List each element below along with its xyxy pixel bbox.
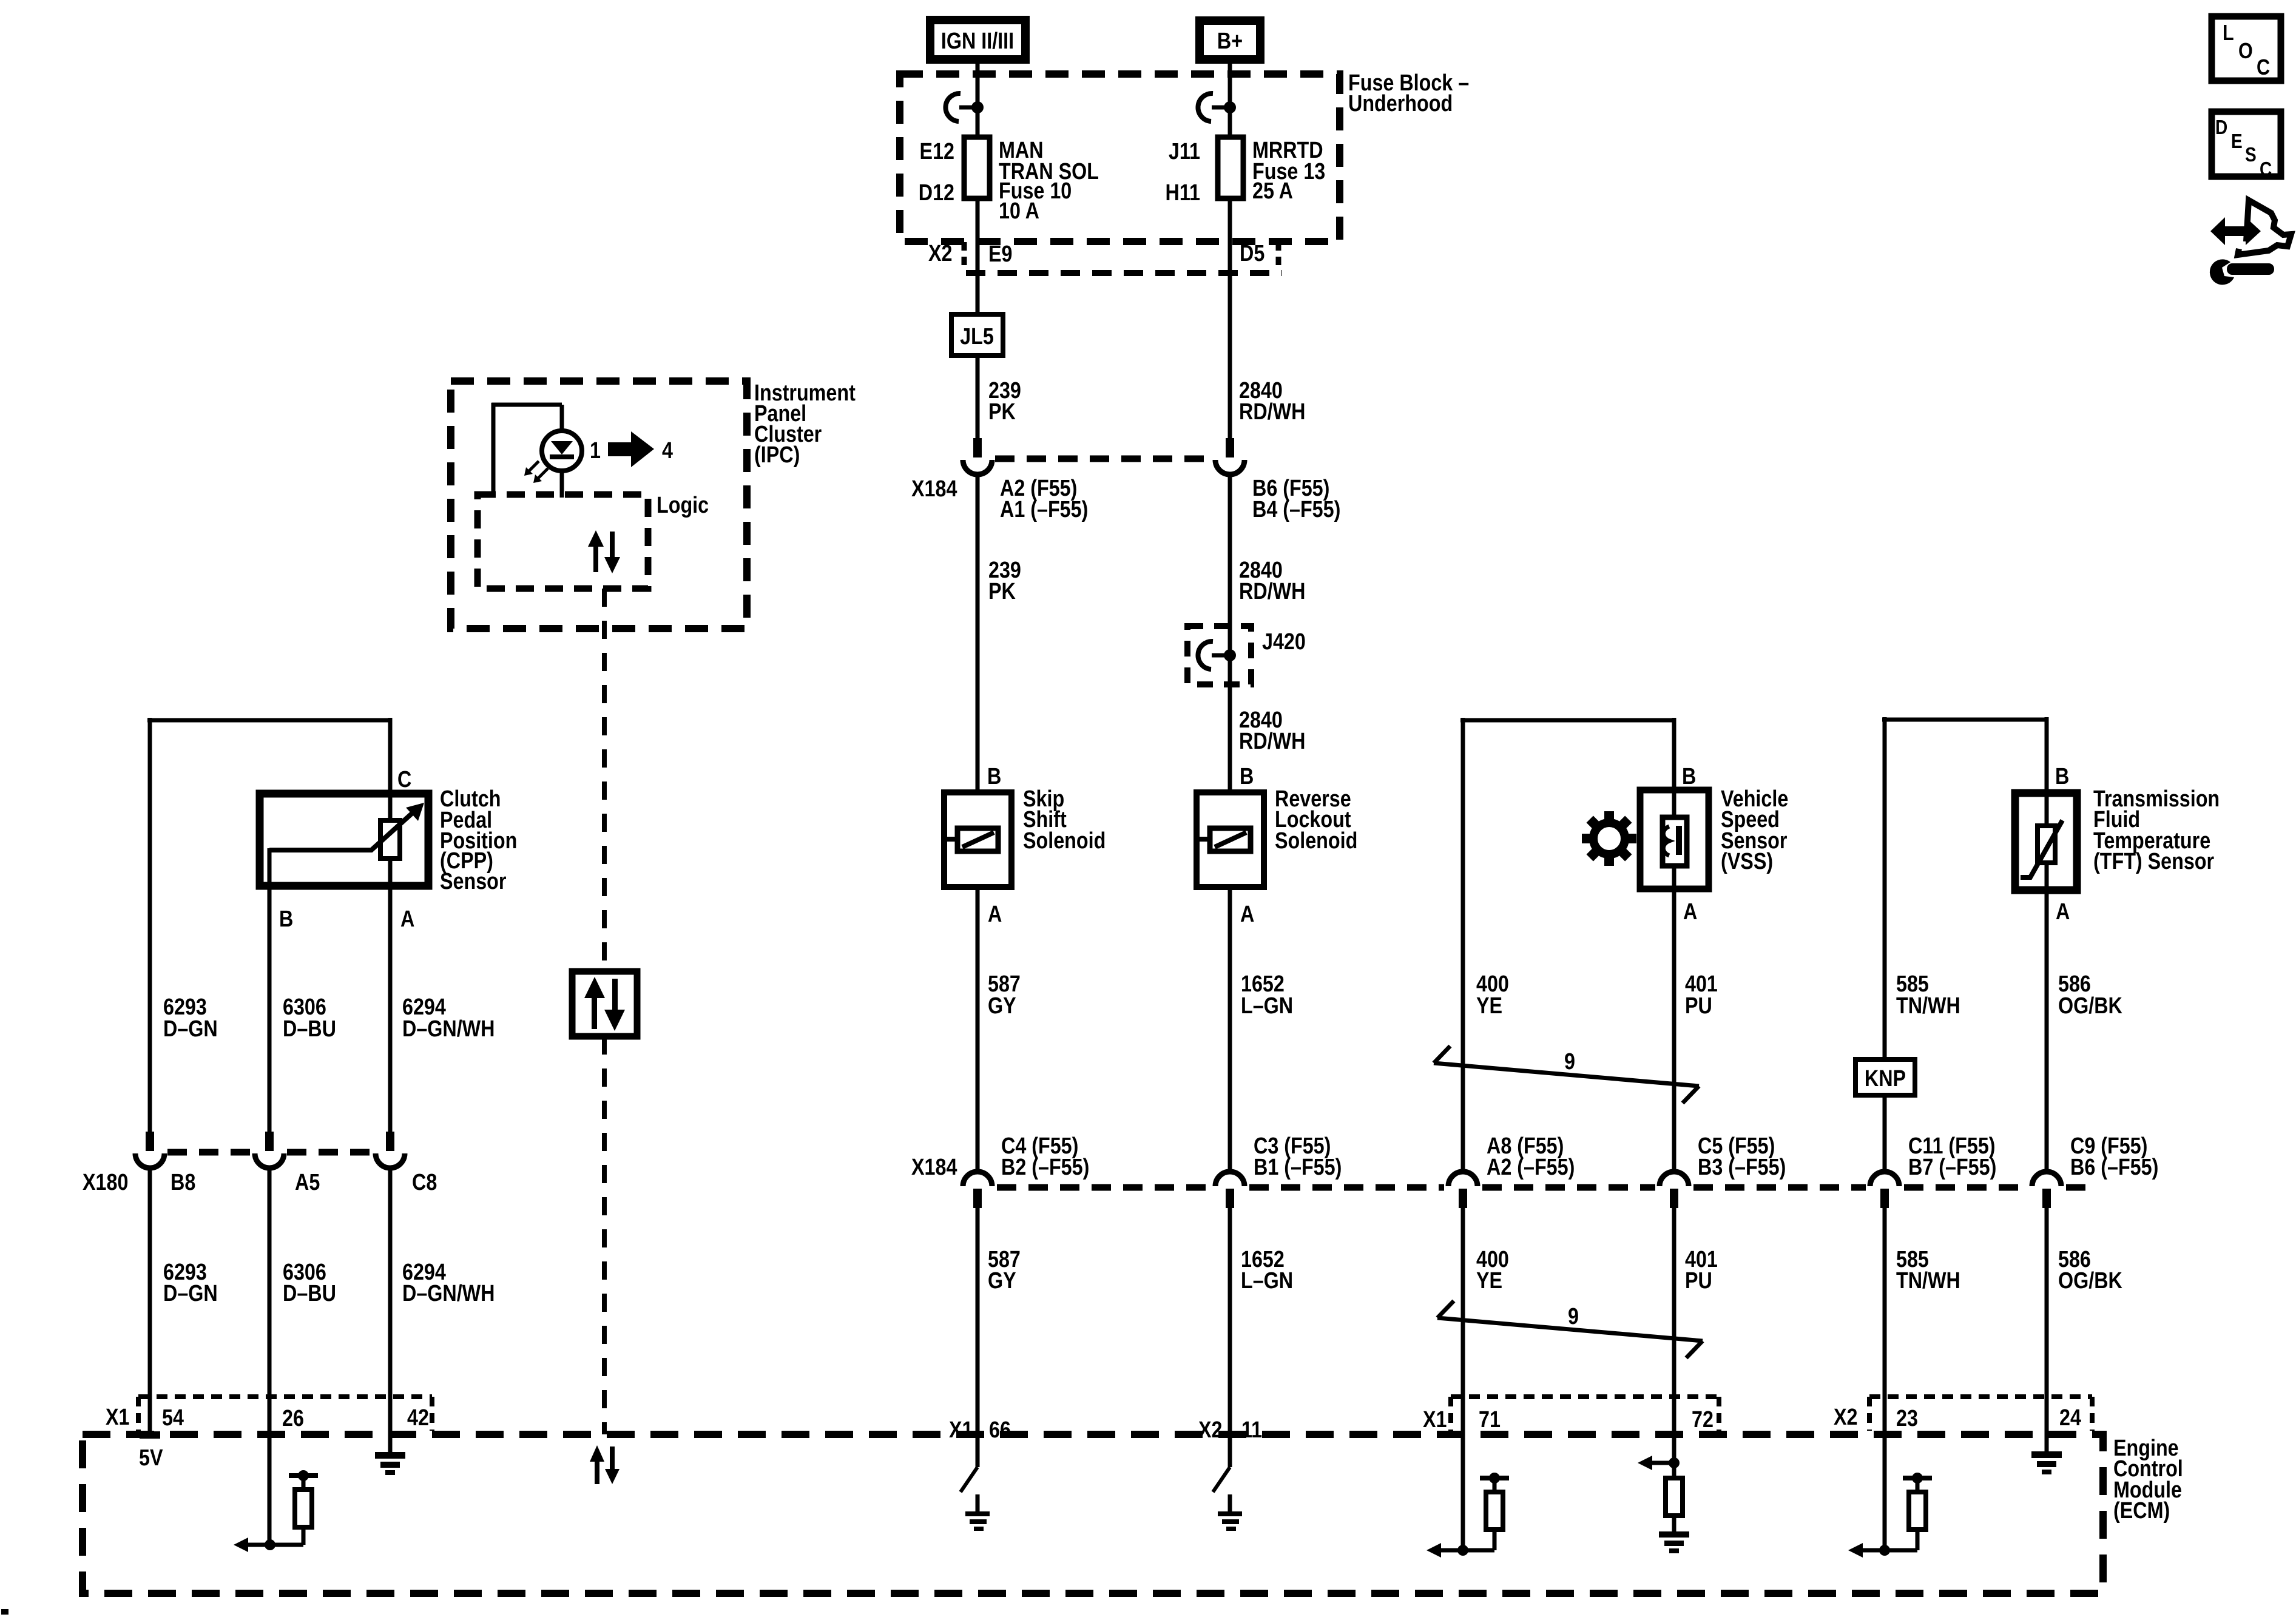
svg-text:A: A [1683, 899, 1697, 925]
svg-text:9: 9 [1564, 1049, 1575, 1075]
label Skip Shift Solenoid [1023, 786, 1106, 854]
svg-text:4: 4 [662, 438, 673, 464]
ECM dashed box [83, 1434, 2103, 1593]
svg-text:B6 (–F55): B6 (–F55) [2070, 1155, 2158, 1180]
svg-text:B: B [987, 764, 1001, 789]
dashed serial data wire IPC to ECM [602, 589, 607, 971]
wire reverse lockout A down [1228, 887, 1232, 1173]
svg-text:D–GN/WH: D–GN/WH [402, 1281, 495, 1306]
svg-text:10 A: 10 A [999, 198, 1039, 224]
X184 connector at 587 GY [963, 1172, 992, 1208]
wire IPC lamp loop [491, 403, 562, 495]
skip shift solenoid U1 [944, 792, 1011, 887]
svg-text:RD/WH: RD/WH [1239, 729, 1305, 754]
wire label 239 PK (upper) [988, 378, 1021, 425]
serial data arrows in ECM [590, 1445, 620, 1484]
svg-text:B: B [1682, 764, 1696, 789]
svg-text:TN/WH: TN/WH [1896, 993, 1960, 1019]
wire labels 6306 D-BU (lower) [283, 1260, 336, 1306]
svg-text:E12: E12 [920, 139, 954, 164]
svg-text:72: 72 [1692, 1407, 1714, 1433]
wire labels 6306 D-BU (upper) [283, 994, 336, 1042]
page corner dot [1, 1609, 8, 1615]
pin labels B6/B4 [1252, 476, 1340, 522]
svg-text:B+: B+ [1217, 29, 1243, 54]
svg-text:Logic: Logic [657, 493, 709, 518]
X184 connector at 400 YE [1448, 1172, 1477, 1208]
potentiometer element [380, 820, 400, 859]
svg-text:B3 (–F55): B3 (–F55) [1698, 1155, 1786, 1180]
svg-text:X184: X184 [911, 1155, 957, 1180]
svg-text:A1 (–F55): A1 (–F55) [1000, 497, 1088, 522]
svg-text:JL5: JL5 [960, 324, 994, 349]
svg-text:D–BU: D–BU [283, 1016, 336, 1042]
wire label 2840 RD/WH (lower) [1239, 707, 1305, 754]
wire skip shift A down [976, 887, 980, 1173]
X184 connector at 1652 L-GN [1215, 1172, 1244, 1208]
svg-text:A: A [400, 906, 414, 932]
connector X1 dotted box (71 72) [1451, 1397, 1719, 1431]
vehicle speed sensor box [1640, 790, 1709, 889]
wire X184 down left (239 PK) [976, 473, 980, 794]
signal arrow at pin 23 [1848, 1543, 1890, 1558]
svg-text:B: B [2055, 764, 2069, 789]
svg-text:J11: J11 [1169, 139, 1200, 164]
svg-text:X2: X2 [1834, 1405, 1857, 1430]
svg-text:X184: X184 [911, 476, 957, 502]
svg-text:A2 (–F55): A2 (–F55) [1487, 1155, 1575, 1180]
pullup resistor R2 at pin 71 [1463, 1473, 1509, 1550]
pullup resistor R4 at pin 23 [1885, 1473, 1932, 1550]
fuse 13 value labels [1252, 138, 1325, 204]
svg-text:H11: H11 [1166, 180, 1200, 206]
wire TFT A down [2045, 863, 2049, 1173]
svg-text:IGN II/III: IGN II/III [941, 29, 1014, 54]
svg-text:B7 (–F55): B7 (–F55) [1908, 1155, 1996, 1180]
resistor R3 to ground at pin 72 [1659, 1478, 1689, 1553]
X184 pin (right, 2840 RD/WH) [1215, 438, 1244, 474]
wire fuse 13 to connector X2 pin D5 [1228, 198, 1232, 438]
potentiometer wiper arrow [269, 803, 424, 850]
X184 connector at 401 PU [1660, 1172, 1689, 1208]
wire VSS top loop [1460, 718, 1674, 1173]
gear icon [1582, 811, 1636, 866]
wire labels 6293 D-GN (upper) [163, 994, 218, 1042]
svg-text:71: 71 [1479, 1407, 1501, 1433]
svg-text:23: 23 [1896, 1406, 1918, 1431]
ground at pin 42 [375, 1434, 405, 1475]
fuse 10 value labels [999, 138, 1099, 224]
svg-text:26: 26 [282, 1406, 304, 1431]
svg-text:PU: PU [1685, 1268, 1712, 1294]
svg-text:B: B [279, 906, 293, 932]
DESC box [2212, 112, 2281, 181]
label Reverse Lockout Solenoid [1275, 786, 1357, 854]
pullup resistor R1 at pin 26 [270, 1470, 318, 1545]
svg-text:RD/WH: RD/WH [1239, 399, 1305, 425]
svg-text:S: S [2245, 144, 2257, 166]
fuse block dashed box [900, 74, 1340, 241]
svg-text:X180: X180 [83, 1170, 128, 1195]
pin labels A2/A1 [1000, 476, 1088, 522]
svg-text:YE: YE [1476, 993, 1502, 1019]
svg-text:A5: A5 [295, 1170, 320, 1195]
svg-text:A: A [1240, 902, 1254, 927]
pin labels C11/B7 [1908, 1133, 1996, 1180]
svg-text:PK: PK [988, 399, 1016, 425]
svg-text:54: 54 [162, 1405, 184, 1431]
wire label 401 PU (lower) [1685, 1247, 1718, 1294]
reverse lockout solenoid U2 [1197, 792, 1264, 887]
indicator lamp LED circle [542, 431, 582, 471]
svg-text:(IPC): (IPC) [754, 442, 800, 468]
label Fuse Block - Underhood [1348, 70, 1469, 116]
fuse F13 MRRTD body [1218, 137, 1243, 198]
svg-text:PK: PK [988, 579, 1016, 604]
svg-text:KNP: KNP [1865, 1066, 1906, 1092]
fuse F10 MAN TRAN SOL body [964, 137, 990, 198]
svg-text:C: C [397, 767, 411, 792]
svg-text:D5: D5 [1240, 241, 1264, 266]
label X2 11 [1198, 1417, 1262, 1443]
LED light arrows [524, 461, 548, 483]
wire labels 6294 D-GN/WH (lower) [402, 1260, 495, 1306]
svg-text:A: A [2056, 899, 2070, 925]
svg-text:D12: D12 [919, 180, 954, 206]
connector X184 row 2 dashed line [997, 1184, 1211, 1191]
svg-text:42: 42 [407, 1405, 429, 1431]
LED cathode bar [550, 454, 574, 459]
wire JL5 to X184 [976, 356, 980, 438]
signal arrow at pin 71 [1427, 1543, 1468, 1558]
splice J420 dashed box [1187, 626, 1251, 684]
svg-text:B2 (–F55): B2 (–F55) [1001, 1155, 1089, 1180]
svg-text:O: O [2238, 39, 2253, 64]
driver switch at pin 66 [961, 1467, 990, 1531]
label Vehicle Speed Sensor (VSS) [1721, 786, 1788, 874]
label Transmission Fluid Temperature (TFT) Sensor [2093, 786, 2220, 874]
X180 pin C8 [376, 1132, 405, 1168]
pin labels C5/B3 [1698, 1133, 1786, 1180]
svg-text:Underhood: Underhood [1348, 91, 1453, 116]
svg-text:GY: GY [988, 993, 1016, 1019]
svg-text:X2: X2 [928, 241, 952, 266]
svg-text:L–GN: L–GN [1241, 1268, 1293, 1294]
svg-text:Sensor: Sensor [440, 869, 507, 894]
svg-text:RD/WH: RD/WH [1239, 579, 1305, 604]
pin labels C4/B2 [1001, 1133, 1089, 1180]
wire label 401 PU (upper) [1685, 971, 1718, 1019]
option box KNP [1855, 1059, 1915, 1095]
svg-text:L: L [2223, 21, 2234, 46]
svg-text:PU: PU [1685, 993, 1712, 1019]
svg-text:(TFT) Sensor: (TFT) Sensor [2093, 849, 2214, 874]
bus tap hook at fuse 10 [945, 93, 984, 121]
label Engine Control Module (ECM) [2113, 1436, 2183, 1524]
signal arrow at pin 72 [1638, 1456, 1680, 1470]
wire label 400 YE (lower) [1476, 1247, 1509, 1294]
X180 pin A5 [255, 1132, 284, 1168]
svg-text:B1 (–F55): B1 (–F55) [1254, 1155, 1342, 1180]
logic dashed box [478, 495, 648, 589]
serial data arrows in logic box [588, 530, 620, 573]
connector X2 dotted box (23 24) [1869, 1397, 2092, 1431]
pin 54 terminal bar [140, 1431, 160, 1439]
power feed box IGN II/III [930, 20, 1025, 59]
wire labels 6293 D-GN (lower) [163, 1260, 218, 1306]
wire TFT top loop [1882, 717, 2047, 1173]
wire label 1652 L-GN (lower) [1241, 1247, 1293, 1294]
svg-text:J420: J420 [1262, 629, 1306, 655]
svg-text:D–GN/WH: D–GN/WH [402, 1016, 495, 1042]
svg-text:E9: E9 [988, 241, 1012, 267]
svg-text:D–BU: D–BU [283, 1281, 336, 1306]
wire B+ feed to fuse 13 [1228, 59, 1232, 137]
svg-text:C: C [2257, 56, 2270, 80]
IPC dashed box [451, 381, 747, 629]
option code box JL5 [951, 314, 1003, 356]
svg-text:X1: X1 [106, 1405, 129, 1430]
arrow 1 to 4 [608, 431, 654, 467]
svg-text:(ECM): (ECM) [2113, 1498, 2170, 1524]
VSS pickup element [1663, 817, 1687, 866]
connector X180 row dashed line [167, 1149, 252, 1156]
wire fuse 10 to connector X2 pin E9 [976, 198, 980, 314]
svg-text:YE: YE [1476, 1268, 1502, 1294]
TFT sensor box [2015, 793, 2077, 890]
connector X184 row 1 dashed line [995, 456, 1214, 462]
svg-text:D–GN: D–GN [163, 1016, 218, 1042]
bus tap hook at fuse 13 [1198, 93, 1236, 121]
svg-text:9: 9 [1568, 1304, 1579, 1329]
CPP sensor box [260, 794, 428, 886]
svg-text:OG/BK: OG/BK [2058, 1268, 2122, 1294]
svg-text:OG/BK: OG/BK [2058, 993, 2122, 1019]
power feed box B+ [1200, 21, 1260, 59]
wire label 587 GY (lower) [988, 1247, 1021, 1294]
wire IGN feed to fuse 10 [976, 59, 980, 137]
connector X1 dotted box (54 26 42) [138, 1397, 432, 1431]
svg-text:Solenoid: Solenoid [1023, 828, 1106, 854]
svg-text:X1: X1 [1423, 1407, 1447, 1433]
wire label 586 OG/BK (lower) [2058, 1247, 2122, 1294]
svg-text:C: C [2260, 158, 2272, 181]
wire VSS A down [1672, 866, 1676, 1173]
svg-text:X1: X1 [949, 1417, 973, 1443]
wires X180 to ECM [150, 1167, 390, 1545]
svg-text:E: E [2231, 130, 2243, 153]
label Clutch Pedal Position (CPP) Sensor [440, 786, 517, 894]
svg-text:D: D [2215, 116, 2227, 139]
connector X2 row dashed line [964, 242, 1282, 273]
pin labels A8/A2 [1487, 1133, 1575, 1180]
signal arrow at pin 26 [234, 1538, 275, 1552]
wire label 2840 RD/WH (mid) [1239, 558, 1305, 604]
dashed serial data wire to ECM [602, 1036, 607, 1434]
X180 pin B8 [135, 1132, 164, 1168]
svg-text:24: 24 [2059, 1405, 2081, 1431]
pin labels C9/B6 [2070, 1133, 2158, 1180]
svg-text:1: 1 [590, 438, 601, 464]
wire label 2840 RD/WH (upper) [1239, 378, 1305, 425]
wire label 1652 L-GN (upper) [1241, 971, 1293, 1019]
X184 connector at 586 OG/BK [2032, 1172, 2061, 1208]
wire X184 down right (2840 RD/WH) [1228, 473, 1232, 794]
wire label 586 OG/BK (upper) [2058, 971, 2122, 1019]
X184 pin (left, 239 PK) [963, 438, 992, 474]
pin labels C3/B1 [1254, 1133, 1342, 1180]
wire labels 6294 D-GN/WH (upper) [402, 994, 495, 1042]
label Instrument Panel Cluster (IPC) [754, 380, 856, 468]
wire label 400 YE (upper) [1476, 971, 1509, 1019]
svg-text:B8: B8 [171, 1170, 195, 1195]
LED diode triangle [551, 441, 573, 454]
svg-text:5V: 5V [139, 1445, 163, 1471]
svg-text:Solenoid: Solenoid [1275, 828, 1357, 854]
wire pot bottom to pin A [388, 859, 393, 1132]
svg-text:D–GN: D–GN [163, 1281, 218, 1306]
svg-text:TN/WH: TN/WH [1896, 1268, 1960, 1294]
wire CPP top loop [147, 718, 390, 1132]
svg-text:11: 11 [1241, 1417, 1262, 1443]
LOC box [2212, 16, 2281, 81]
shield crossing 9 (upper) [1434, 1046, 1699, 1103]
driver switch at pin 11 [1213, 1467, 1242, 1531]
diagnostic tool icon (double arrow, connector outline, wrench) [2210, 200, 2291, 285]
label X1 66 [949, 1417, 1011, 1443]
X184 connector at 585 TN/WH [1870, 1172, 1899, 1208]
svg-text:A: A [988, 902, 1002, 927]
svg-text:B: B [1240, 764, 1254, 789]
svg-text:B4 (–F55): B4 (–F55) [1252, 497, 1340, 522]
shield crossing 9 (lower) [1437, 1301, 1703, 1358]
svg-text:X2: X2 [1198, 1417, 1222, 1443]
svg-text:66: 66 [989, 1417, 1011, 1443]
svg-text:GY: GY [988, 1268, 1016, 1294]
wire label 587 GY (upper) [988, 971, 1021, 1019]
wire LED to logic [560, 470, 564, 498]
ground at pin 24 [2031, 1451, 2062, 1474]
wires X184 row2 down to ECM [977, 1208, 2047, 1550]
wire label 585 TN/WH (upper) [1896, 971, 1960, 1019]
svg-text:C8: C8 [412, 1170, 437, 1195]
serial data direction box [572, 971, 637, 1036]
wire wiper to pin B [268, 848, 272, 1132]
svg-text:(VSS): (VSS) [1721, 849, 1773, 874]
wire label 585 TN/WH (lower) [1896, 1247, 1960, 1294]
thermistor element [2021, 820, 2062, 877]
wire label 239 PK (mid) [988, 558, 1021, 604]
svg-text:25 A: 25 A [1252, 178, 1293, 204]
svg-text:L–GN: L–GN [1241, 993, 1293, 1019]
